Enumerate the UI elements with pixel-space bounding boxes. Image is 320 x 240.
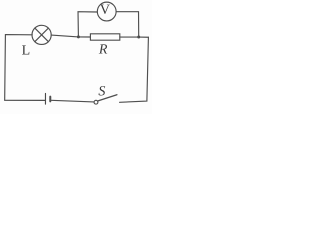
battery long plate [44, 93, 46, 104]
svg-text:R: R [98, 43, 108, 58]
wire battery to switch [51, 100, 94, 102]
wire node B to right edge [139, 36, 149, 38]
wire voltmeter branch left: node A up and right to voltmeter [78, 12, 97, 37]
wire left side: lamp to left edge, down, bottom to battery [5, 35, 46, 101]
wire switch to bottom right corner and up right side [120, 37, 149, 102]
wire node A to resistor [78, 36, 90, 38]
lamp L circle [32, 25, 51, 44]
node B junction dot [137, 36, 140, 39]
svg-text:L: L [22, 43, 31, 58]
svg-text:V: V [100, 3, 110, 18]
voltmeter V circle [97, 2, 116, 21]
wire voltmeter branch right: to corner and down to node B [116, 12, 139, 37]
switch S blade [98, 95, 117, 101]
wire resistor to node B [120, 36, 139, 38]
svg-text:S: S [98, 84, 105, 99]
battery short plate [49, 97, 51, 102]
lamp L cross stroke 2 [35, 28, 49, 42]
lamp L cross stroke 1 [35, 28, 49, 42]
wire lamp to node A [51, 35, 78, 37]
node A junction dot [77, 35, 80, 38]
switch S pivot [94, 100, 98, 104]
resistor R body [90, 34, 119, 40]
